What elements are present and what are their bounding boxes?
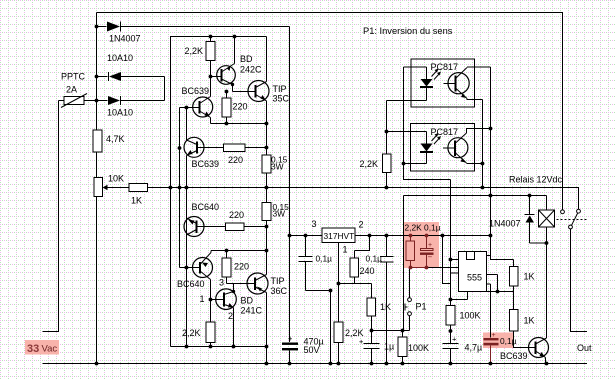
svg-text:PC817: PC817 (431, 62, 459, 72)
phototransistor U1b (448, 138, 468, 158)
wire rectifier upper row (97, 77, 165, 101)
wire 317 input (290, 235, 323, 237)
transistor Q6 BC640 (193, 258, 213, 278)
switch pole C (569, 225, 573, 229)
svg-text:BD: BD (240, 54, 253, 64)
resistor 220 (Q2-Q3) (226, 92, 228, 124)
resistor 0,15 3W lower (262, 203, 271, 221)
resistor 1K adj (371, 284, 373, 331)
svg-text:0,1µ: 0,1µ (316, 254, 333, 264)
wire 317 output (355, 235, 491, 237)
resistor 220 (Q5) (226, 223, 245, 231)
svg-text:+: + (452, 335, 457, 344)
wire U1a emitter rail (467, 99, 483, 188)
wire timing node (411, 267, 428, 269)
svg-text:+: + (288, 334, 293, 343)
node dots right rail (265, 122, 269, 126)
svg-text:Relais 12Vdc: Relais 12Vdc (509, 175, 563, 185)
svg-text:+: + (359, 337, 364, 346)
resistor 240 (350, 258, 359, 277)
svg-text:P1: P1 (416, 302, 427, 312)
capacitor 470µ 50V (282, 343, 298, 345)
svg-text:2: 2 (228, 311, 233, 321)
wire emitter chain rail (186, 156, 188, 347)
svg-text:3: 3 (219, 278, 224, 288)
resistor 220 (Q7 base) (226, 251, 228, 284)
svg-text:10A10: 10A10 (107, 53, 133, 63)
wire 555 output (467, 67, 514, 260)
switch contact A (561, 210, 565, 214)
LED U1a (426, 67, 428, 79)
wire relay rail (546, 196, 548, 339)
wire Q6 collector (211, 251, 267, 253)
wire amplifier right rail (266, 37, 268, 347)
transistor Q4 BC639 (184, 137, 204, 157)
node dots control bus (169, 186, 173, 190)
wire 1N4007 branch to filter rail (97, 26, 290, 28)
svg-text:240: 240 (360, 266, 375, 276)
switch lever (572, 213, 578, 225)
phototransistor U1a (448, 73, 469, 94)
svg-text:1N4007: 1N4007 (109, 34, 141, 44)
capacitor 0,1µ timing (maroon) (426, 236, 428, 268)
wire top supply rail (97, 13, 563, 211)
wire base TIP36C (227, 284, 256, 292)
wire Q2 emitter to Q3 base (233, 85, 256, 92)
wire AC input live (43, 101, 59, 332)
capacitor 4,7µ (443, 331, 459, 364)
highlight zone 33 Vac (25, 340, 59, 355)
svg-text:100K: 100K (460, 311, 481, 321)
svg-text:1K: 1K (380, 302, 391, 312)
switch contact B (577, 209, 581, 213)
wire U1b emitter (467, 163, 483, 165)
transistor Q9 BC639 driver (529, 338, 549, 358)
resistor 1K base (514, 292, 536, 348)
svg-text:2,2K: 2,2K (185, 46, 204, 56)
svg-text:2,2K 0,1µ: 2,2K 0,1µ (405, 223, 441, 233)
wire P1 node (372, 316, 410, 331)
svg-text:241C: 241C (241, 306, 263, 316)
wire amplifier frame bottom (171, 347, 267, 364)
optocoupler U1a PC817 box (411, 59, 475, 107)
svg-text:2A: 2A (66, 85, 77, 95)
potentiometer 10K (94, 178, 103, 197)
transistor Q7 BD241C (216, 289, 237, 310)
node dots 2,2K upper (209, 35, 213, 39)
svg-text:36C: 36C (271, 286, 288, 296)
svg-text:+: + (492, 332, 496, 339)
transistor Q2 BD242C (217, 66, 236, 85)
svg-text:BC640: BC640 (177, 279, 205, 289)
wire collector riser Q4 (186, 108, 188, 141)
svg-text:BC639: BC639 (192, 159, 220, 169)
wire output (571, 229, 588, 332)
svg-text:BC640: BC640 (192, 202, 220, 212)
resistor 2,2K adj (334, 322, 343, 343)
svg-text:10K: 10K (108, 174, 124, 184)
wire P1 to timing node (409, 268, 411, 298)
svg-text:TIP: TIP (271, 276, 285, 286)
svg-text:2: 2 (359, 220, 364, 230)
svg-text:50V: 50V (304, 345, 320, 355)
LED U1b (426, 132, 428, 144)
svg-text:1K: 1K (524, 272, 535, 282)
svg-text:100K: 100K (408, 343, 429, 353)
diode D3 10A10 (108, 96, 120, 105)
svg-text:+: + (428, 242, 432, 249)
fuse PPTC 2A (64, 97, 84, 105)
relay K1 (539, 210, 555, 227)
wire discharge link (443, 236, 451, 284)
wire 240 elbow (355, 236, 370, 259)
svg-text:2,2K: 2,2K (182, 328, 201, 338)
wire 555 bottom pin (451, 292, 468, 300)
wire rectified rail (289, 27, 291, 364)
transistor Q1 BC639 (193, 97, 213, 117)
regulator U2 317HVT (322, 228, 355, 243)
wire U1b collector (467, 129, 491, 134)
wire 555 pin2 link (487, 275, 514, 292)
svg-text:33: 33 (27, 343, 39, 355)
svg-text:1K: 1K (131, 196, 142, 206)
svg-text:Vac: Vac (42, 344, 58, 355)
capacitor 0,1µ input (299, 236, 313, 291)
transistor Q8 TIP36C (247, 273, 268, 294)
resistor 2,2K lower (206, 322, 215, 343)
wire bottom return (43, 363, 588, 365)
svg-text:Out: Out (577, 343, 592, 353)
IC U3 555 (459, 252, 487, 292)
resistor 0,15 3W upper (262, 155, 271, 173)
svg-text:4,7µ: 4,7µ (465, 343, 483, 353)
svg-text:0,1µ: 0,1µ (500, 336, 517, 346)
resistor 1K relay (513, 260, 515, 292)
capacitor 1µ (364, 331, 380, 364)
svg-text:3: 3 (312, 219, 317, 229)
diode 1N4007 flyback (525, 196, 547, 244)
diode D2 10A10 (108, 72, 110, 81)
svg-text:555: 555 (467, 273, 482, 283)
resistor 100K (P1) (398, 337, 407, 357)
svg-text:P1: Inversion du sens: P1: Inversion du sens (363, 26, 453, 36)
svg-text:220: 220 (233, 102, 248, 112)
resistor 220 (Q4) (224, 144, 246, 152)
capacitor 0,1µ output (380, 236, 394, 364)
svg-text:10A10: 10A10 (107, 108, 133, 118)
svg-text:220: 220 (234, 262, 249, 272)
wire Q1 emitter bus (211, 123, 267, 125)
relay actuation dashed link (557, 219, 588, 221)
svg-text:BC639: BC639 (182, 86, 210, 96)
svg-text:1: 1 (343, 245, 348, 255)
svg-text:3W: 3W (273, 209, 286, 219)
svg-text:PPTC: PPTC (61, 72, 86, 82)
svg-text:1K: 1K (524, 316, 535, 326)
wire rectifier lower row (84, 100, 165, 102)
wire base rail (180, 108, 200, 268)
wire Q6 emitter node (210, 280, 212, 323)
wire amplifier frame left and top (171, 37, 267, 347)
resistor 1K wiper (129, 184, 148, 192)
node dots AC rail (95, 25, 99, 29)
highlight zone timing network (403, 222, 439, 268)
svg-text:1: 1 (200, 294, 205, 304)
wire 317 adj (339, 243, 372, 323)
svg-text:BC639: BC639 (500, 351, 528, 361)
wire input cap to ground (306, 291, 331, 364)
wire LED bias chain (387, 101, 427, 188)
wire relay feed (404, 196, 547, 331)
wire control bus (wiper to switch) (148, 188, 579, 210)
svg-text:BD: BD (241, 296, 254, 306)
svg-text:220: 220 (228, 155, 243, 165)
svg-text:0,1µ: 0,1µ (366, 254, 383, 264)
svg-text:−: − (428, 253, 433, 262)
svg-text:35C: 35C (273, 94, 290, 104)
svg-text:2,2K: 2,2K (360, 159, 379, 169)
wire left AC rail (96, 13, 98, 364)
svg-text:3W: 3W (271, 162, 284, 172)
resistor 2,2K upper (210, 37, 212, 77)
svg-text:TIP: TIP (273, 84, 287, 94)
svg-text:PC817: PC817 (431, 127, 459, 137)
svg-text:317HVT: 317HVT (324, 231, 355, 241)
transistor Q3 TIP35C (248, 81, 269, 102)
wire 555 right pins (487, 256, 498, 285)
svg-text:242C: 242C (240, 65, 262, 75)
node dots bottom return (95, 362, 99, 366)
wire 555 left pins (451, 260, 459, 274)
resistor 100K (555) (450, 300, 452, 332)
svg-text:4,7K: 4,7K (106, 134, 125, 144)
wire Q7 emitter (233, 308, 235, 347)
pushbutton P1 (408, 298, 412, 302)
resistor 4,7K (93, 130, 102, 152)
svg-text:1N4007: 1N4007 (489, 219, 521, 229)
wire opto to 555 threshold (404, 67, 451, 300)
highlight zone reset capacitor (483, 333, 513, 349)
svg-text:220: 220 (229, 210, 244, 220)
svg-text:1µ: 1µ (384, 342, 394, 352)
transistor Q5 BC640 (184, 217, 204, 237)
capacitor 0,1µ reset (maroon) (490, 284, 492, 338)
resistor 2,2K opto (383, 154, 392, 173)
optocoupler U1b PC817 box (411, 124, 475, 172)
resistor 2,2K timing (maroon) (410, 236, 412, 268)
diode D1 1N4007 (107, 22, 120, 32)
